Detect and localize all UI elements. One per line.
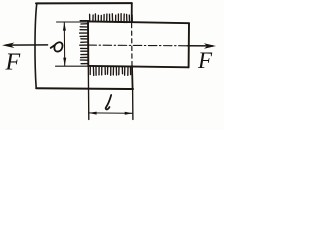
label b (rotated) — [51, 42, 63, 51]
dimension l extension right — [132, 89, 134, 120]
svg-text:F: F — [5, 50, 21, 76]
plate top edge — [36, 2, 132, 4]
bar bottom edge — [88, 66, 188, 67]
dim b arrowhead down — [63, 58, 66, 66]
weld hatching bottom — [90, 67, 130, 76]
weld hatching left — [80, 21, 89, 64]
dim l arrowhead right — [125, 112, 133, 115]
bar left edge — [87, 21, 89, 66]
dimension b extension top — [57, 21, 89, 23]
plate bottom edge — [36, 87, 133, 90]
dimension b extension bottom — [56, 65, 89, 67]
force arrow left shaft — [6, 44, 48, 46]
svg-text:F: F — [197, 48, 213, 73]
centerline dash-dot — [88, 44, 189, 47]
force arrow right shaft — [188, 45, 213, 47]
label l — [106, 95, 112, 109]
dimension l extension left — [87, 66, 90, 120]
plate left edge (break) — [35, 3, 37, 88]
force arrowhead right — [204, 43, 216, 49]
plate right edge upper — [131, 3, 133, 21]
weld hatching top — [90, 14, 133, 22]
plate right edge hidden (dashed behind bar) — [131, 24, 133, 66]
dim b arrowhead up — [63, 22, 66, 30]
dimension b line — [63, 23, 65, 66]
dimension l line — [89, 112, 133, 114]
plate right edge lower — [131, 66, 134, 89]
force arrowhead left — [2, 43, 14, 49]
dim l arrowhead left — [89, 112, 97, 115]
bar top edge — [88, 21, 189, 23]
bar right edge — [188, 23, 190, 67]
